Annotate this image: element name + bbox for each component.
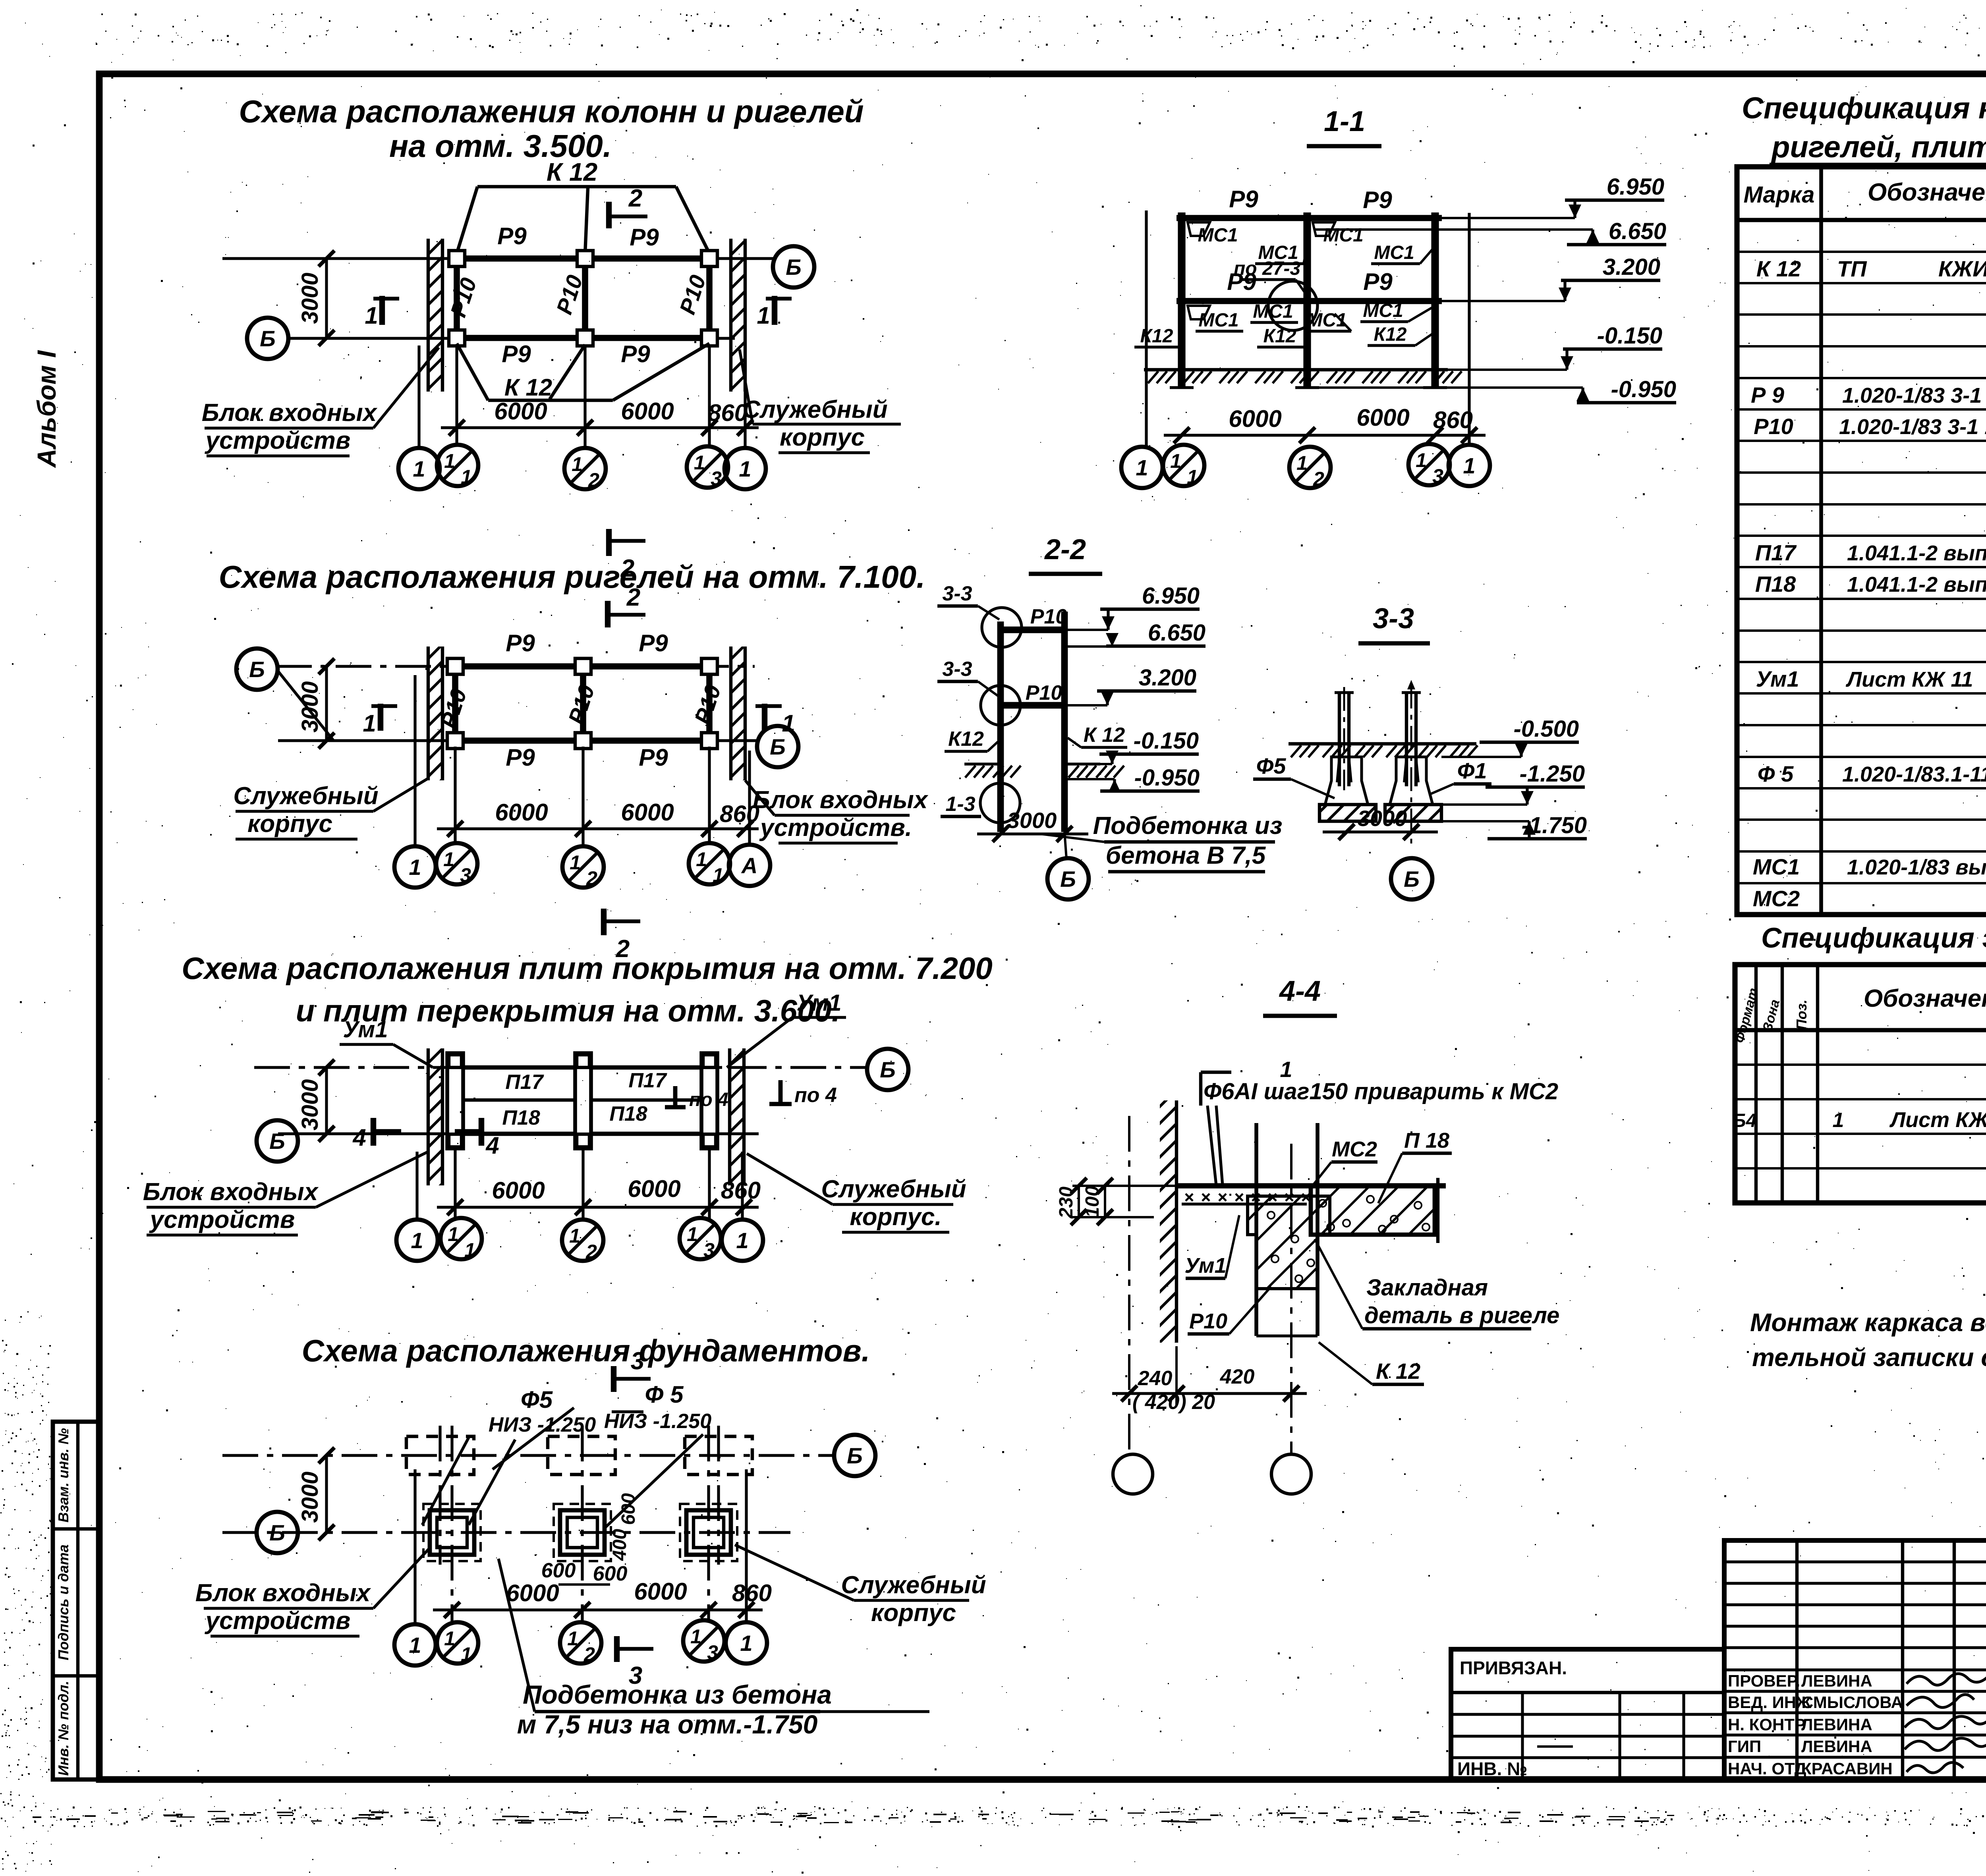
svg-text:2: 2 [583,1643,595,1666]
spec table2 row B4 list KZh11 [1733,1106,1986,1132]
svg-text:Р9: Р9 [639,744,668,771]
svg-text:1: 1 [696,848,707,870]
svg-text:Закладная: Закладная [1366,1275,1488,1301]
spec table1 row P9 [1751,382,1986,407]
section2 podbetonka note [1041,812,1282,872]
plan1 section mark 2 bottom [609,529,645,582]
svg-text:3: 3 [631,1347,644,1375]
svg-text:Подбетонка из: Подбетонка из [1093,812,1283,840]
section 3-3 title [1358,603,1430,643]
svg-text:Служебный: Служебный [233,782,378,810]
svg-text:3000: 3000 [297,272,323,324]
section2 elevation 6.650 [1068,620,1206,647]
plan2 axis circle 1/2 [562,846,604,890]
plan1 column squares [449,251,717,346]
svg-text:1.020-1/83.1-11.0.0: 1.020-1/83.1-11.0.0 [1842,762,1986,786]
plan3 wall right hatched [730,1048,744,1185]
svg-text:3-3: 3-3 [942,582,972,605]
svg-text:К 12: К 12 [1084,724,1125,747]
svg-text:Б: Б [249,657,265,682]
plan3 axis B top line [254,1066,869,1069]
svg-text:Б: Б [269,1129,285,1154]
section3 dim 3000 [1323,806,1438,840]
svg-text:1: 1 [570,851,581,874]
svg-text:Р10: Р10 [1754,414,1793,439]
svg-text:Служебный: Служебный [821,1175,966,1203]
section2 elevation -0.950 [1068,765,1200,793]
svg-text:Блок входных: Блок входных [753,786,929,814]
section3 pedestal F5 left [1325,757,1368,805]
svg-text:Р10: Р10 [563,682,599,727]
plan2 axis circle B left [236,648,278,690]
spec table1 row Um1 [1756,666,1986,691]
plan4 podbetonka note [498,1559,929,1739]
spec table1 row F5 [1758,761,1986,786]
plan3 leader sluzhebny korpus [747,1154,966,1232]
section3 anchor bolts left [1335,687,1354,790]
svg-text:1: 1 [1280,1057,1292,1082]
svg-text:Подпись и дата: Подпись и дата [55,1544,71,1660]
svg-text:Спецификация к схемам располож: Спецификация к схемам расположения колон… [1742,91,1986,125]
plan4 axis B bottom line [222,1531,790,1534]
section1 po27-3 note [1234,258,1307,296]
section3 axis circle B [1391,858,1432,899]
svg-text:Ум1: Ум1 [1756,666,1799,691]
svg-text:Р 9: Р 9 [1751,382,1784,407]
svg-text:1: 1 [461,466,472,488]
title block privyazan table [1451,1649,1724,1779]
plan3 axis verticals [417,1150,742,1221]
plan4 axis verticals dashdot [415,1426,746,1626]
svg-text:Р10: Р10 [674,272,711,317]
svg-text:Б: Б [260,326,276,351]
svg-text:3: 3 [707,1641,718,1664]
svg-text:6000: 6000 [494,398,547,425]
plan4 section mark 3 top [614,1347,651,1392]
plan4 top row foundations dashed [406,1436,752,1475]
section3 F1 label [1430,758,1491,794]
svg-text:Инв. № подл.: Инв. № подл. [55,1681,71,1776]
plan2 wall left hatched [428,647,442,780]
svg-text:2: 2 [628,185,642,212]
plan2 beams P10 vertical [455,666,709,741]
svg-text:6000: 6000 [1229,405,1281,432]
svg-text:Р9: Р9 [630,224,659,251]
svg-text:1: 1 [363,710,376,737]
plan1 beams P10 vertical [457,259,709,338]
svg-text:100: 100 [1082,1186,1103,1218]
svg-text:П18: П18 [1755,571,1796,596]
svg-text:1: 1 [409,855,421,880]
svg-text:1: 1 [567,1627,578,1650]
svg-text:Б: Б [786,255,802,280]
svg-text:1: 1 [1296,452,1308,474]
section2 elevation 6.950 [1068,583,1200,630]
svg-text:1: 1 [461,1643,472,1666]
svg-text:1: 1 [782,710,795,737]
svg-text:по 4: по 4 [794,1084,837,1107]
svg-text:600: 600 [541,1559,576,1582]
plan1 section mark 1 left [365,296,399,329]
svg-text:К12: К12 [1263,326,1296,347]
svg-text:-0.150: -0.150 [1134,728,1199,754]
plan1 dim 3000 left [222,251,334,346]
svg-text:1: 1 [1463,453,1475,478]
plan1 axis circle B left [247,318,288,359]
svg-text:корпус: корпус [780,424,865,451]
svg-text:600: 600 [618,1493,639,1525]
plan3 title [182,951,993,1028]
section2 beam P10 middle [1001,681,1064,705]
plan2 axis B top line [276,665,755,668]
svg-text:860: 860 [732,1580,772,1606]
svg-text:Ум1: Ум1 [343,1017,388,1042]
plan2 axis circle 1/3 [436,843,477,886]
svg-text:П17: П17 [628,1069,667,1092]
svg-text:Альбом I: Альбом I [32,350,61,468]
svg-text:корпус: корпус [871,1599,956,1627]
detail4 column K12 lines [1256,1123,1318,1336]
spec table1 grid [1737,167,1986,915]
svg-text:420: 420 [1220,1365,1255,1388]
svg-text:1.041.1-2 вып.1: 1.041.1-2 вып.1 [1847,541,1986,565]
svg-text:1.020-1/83 3-1: 1.020-1/83 3-1 [1842,384,1982,407]
svg-text:Схема располажения колонн и ри: Схема располажения колонн и ригелей [239,94,864,129]
plan3 axis circle 1/2 [562,1220,603,1263]
section1 axis circle 1 right [1449,445,1490,486]
svg-text:Лист КЖ 11: Лист КЖ 11 [1845,668,1973,691]
detail4 mesh marks [1182,1194,1310,1204]
svg-text:600: 600 [593,1562,628,1585]
plan1 wall left hatched [428,239,442,392]
spec table1 title [1742,91,1986,164]
svg-text:230: 230 [1056,1187,1077,1219]
svg-text:К12: К12 [1374,324,1407,345]
detail4 axis line left [1128,1116,1130,1453]
svg-text:2: 2 [588,469,599,491]
svg-text:деталь в ригеле: деталь в ригеле [1364,1303,1559,1328]
plan2 wall right hatched [731,647,745,780]
spec table1 row P17 [1755,540,1986,565]
plan2 axis circle A [729,845,770,886]
montage note [1750,1308,1986,1372]
svg-text:6.950: 6.950 [1142,583,1200,609]
section 2-2 title [1029,534,1102,574]
svg-text:Р9: Р9 [1229,186,1258,212]
svg-text:-0.150: -0.150 [1597,323,1662,349]
svg-text:Ф6АI шаг150 приварить к МС2: Ф6АI шаг150 приварить к МС2 [1204,1079,1558,1104]
plan4 section mark 3 bottom [617,1636,653,1689]
section1 ground line [1144,370,1462,383]
section3 pedestal F1 right [1390,757,1433,805]
svg-text:ригелей, плит, фундаментов.: ригелей, плит, фундаментов. [1771,130,1986,164]
svg-text:2: 2 [626,584,640,611]
svg-text:Р9: Р9 [1363,187,1392,213]
svg-text:Р9: Р9 [621,341,650,367]
detail4 axis line right [1290,1144,1292,1453]
svg-text:-1.250: -1.250 [1520,761,1585,787]
svg-text:1: 1 [1187,466,1198,488]
svg-text:ТП: ТП [1837,256,1867,281]
section3 elevation -0.500 [1441,716,1579,757]
plan3 leader blok vhodnyh [143,1152,428,1235]
plan4 leader sluzhebny korpus [735,1545,986,1627]
svg-text:2-2: 2-2 [1044,534,1086,566]
svg-text:Взам. инв. №: Взам. инв. № [55,1428,71,1523]
svg-text:Б: Б [847,1443,863,1468]
section2 dim 3000 [977,808,1088,842]
svg-text:НАЧ. ОТД: НАЧ. ОТД [1728,1759,1806,1778]
svg-text:1: 1 [443,848,454,870]
svg-text:Схема располажения фундаменто: Схема располажения фундаментов. [302,1333,870,1368]
svg-text:6000: 6000 [506,1580,559,1606]
svg-text:-0.950: -0.950 [1134,765,1200,791]
plan1 axis circle 1 right [724,448,766,489]
section1 elevation 3.200 [1442,254,1660,301]
svg-text:3000: 3000 [297,1471,323,1523]
svg-text:К12: К12 [948,728,984,751]
svg-text:ЛЕВИНА: ЛЕВИНА [1801,1737,1872,1756]
plan2 axis circle 1 [394,846,436,888]
svg-text:Служебный: Служебный [841,1571,986,1599]
section1 elevation 6.650 [1315,218,1666,245]
plan1 beam P9 top [457,255,709,262]
spec table1 row K12 [1756,256,1986,281]
detail4 Um1 label [1184,1215,1239,1278]
plan4 F5 label left [477,1386,553,1414]
svg-text:6.650: 6.650 [1148,620,1206,646]
svg-text:1.020-1/83 вып. 7-1: 1.020-1/83 вып. 7-1 [1847,855,1986,879]
svg-text:6000: 6000 [621,398,674,425]
section1 axis circle 1/2 [1289,447,1331,490]
section2 beam P10 top [1001,605,1067,630]
plan4 title [302,1333,870,1368]
svg-text:1: 1 [411,1228,423,1253]
plan2 beam P9 bottom [455,737,709,744]
section1 dimension line [1164,404,1486,443]
svg-text:1: 1 [740,1631,752,1656]
svg-text:Н. КОНТР: Н. КОНТР [1728,1715,1806,1734]
section1 axis circle 1/1 [1163,445,1204,488]
plan4 axis circle B left [257,1512,298,1553]
section1 P9 labels [1227,186,1393,295]
svg-text:корпус: корпус [247,810,332,838]
plan2 leader blok vhodnyh right [745,780,929,843]
svg-text:3000: 3000 [297,681,323,732]
svg-text:6000: 6000 [1356,404,1409,431]
svg-text:3-3: 3-3 [1373,603,1414,635]
svg-text:Б: Б [880,1057,896,1082]
plan3 axis B bottom line [278,1132,759,1135]
plan3 plate field outline [455,1067,709,1134]
plan3 P18 labels [502,1102,647,1129]
svg-text:Р9: Р9 [506,744,535,771]
section2 K12 labels [945,724,1127,751]
album label vertical [32,350,61,468]
svg-text:МС1: МС1 [1363,300,1403,321]
title block sign rows text [1728,1671,1903,1778]
svg-text:860: 860 [708,400,748,426]
svg-text:ПРИВЯЗАН.: ПРИВЯЗАН. [1460,1658,1567,1678]
svg-text:1: 1 [757,302,770,329]
svg-text:СМЫСЛОВА: СМЫСЛОВА [1801,1693,1903,1712]
plan1 axis circle 1/2 [564,448,606,491]
svg-text:К 12: К 12 [504,374,552,401]
plan1 K12 top label [547,158,597,186]
svg-text:Б4: Б4 [1733,1110,1757,1131]
plan3 axis circle B left [257,1120,298,1162]
detail4 slab P18 hatched [1311,1178,1438,1243]
detail4 K12 label [1319,1342,1424,1384]
section2 detail circle 1-3 bottom [941,783,1020,823]
svg-text:4: 4 [485,1132,499,1159]
svg-text:Ф 5: Ф 5 [645,1381,684,1408]
svg-text:Блок входных: Блок входных [202,399,378,427]
svg-text:Поз.: Поз. [1793,1000,1810,1030]
svg-text:Лист КЖ 11: Лист КЖ 11 [1889,1108,1986,1132]
svg-text:1: 1 [1170,450,1181,472]
section1 MC1 flags middle row [1188,300,1435,331]
svg-text:1: 1 [690,1625,701,1648]
section1 axis line 1 right [1468,213,1470,446]
detail4 zakladnaya note [1315,1239,1559,1329]
svg-text:6000: 6000 [495,799,548,826]
svg-text:Блок входных: Блок входных [143,1178,319,1206]
svg-text:Ф5: Ф5 [521,1386,553,1413]
svg-text:ЛЕВИНА: ЛЕВИНА [1801,1671,1872,1690]
svg-text:3: 3 [711,467,722,490]
svg-text:Б: Б [770,734,786,759]
plan4 bottom row foundations [423,1504,737,1561]
svg-text:НИЗ -1.250: НИЗ -1.250 [604,1410,711,1433]
spec table2 title [1761,923,1986,954]
section1 beam P9 middle [1177,298,1442,304]
svg-text:6.950: 6.950 [1607,174,1664,200]
plan2 axis circle B right [757,726,798,767]
svg-text:1-1: 1-1 [1324,106,1365,137]
svg-text:1: 1 [569,1225,580,1247]
svg-text:МС1: МС1 [1198,225,1238,246]
svg-text:Р9: Р9 [1363,268,1393,295]
plan1 axis B top line [222,257,774,260]
svg-text:1.020-1/83 3-1 14-01: 1.020-1/83 3-1 14-01 [1839,415,1986,439]
svg-text:по 27-3: по 27-3 [1234,258,1300,279]
svg-text:устройств: устройств [205,427,351,454]
svg-text:860: 860 [1433,407,1473,433]
svg-text:устройств: устройств [205,1607,351,1635]
svg-text:1: 1 [713,864,724,886]
svg-text:ВЕД. ИНЖ: ВЕД. ИНЖ [1728,1693,1812,1712]
section2 detail circle 3-3 top [937,582,1022,647]
plan3 dimension line [437,1175,761,1215]
svg-text:К 12: К 12 [547,158,597,186]
svg-text:Б: Б [1404,867,1420,892]
plan1 axis circle 1 left [398,448,440,489]
plan4 niz labels [489,1410,711,1436]
section1 column feet [1170,386,1447,389]
svg-text:МС1: МС1 [1198,310,1238,331]
section3 elevation -1.750 [1441,813,1587,839]
plan2 dim 3000 [278,658,334,749]
svg-text:П17: П17 [1755,540,1797,565]
plan4 dim 3000 [297,1448,334,1540]
detail4 MC2 label [1313,1137,1377,1185]
svg-text:Ф5: Ф5 [1256,753,1287,778]
svg-text:МС1: МС1 [1253,301,1293,322]
section3 F5 label [1253,753,1335,798]
svg-text:Марка: Марка [1743,182,1814,208]
svg-text:КЖИ.07.0.01: КЖИ.07.0.01 [1938,256,1986,281]
svg-text:1: 1 [572,453,583,475]
section2 detail circle 3-3 mid [937,658,1020,725]
svg-text:2: 2 [1313,468,1324,490]
spec table1 row MC1 [1753,842,1986,879]
plan4 leader blok vhodnyh [195,1549,429,1636]
svg-text:4: 4 [352,1124,366,1151]
detail4 floor line [1177,1183,1446,1188]
plan4 axis B top line [222,1454,834,1457]
svg-text:Обозначение: Обозначение [1864,985,1986,1012]
section3 elevation -1.250 [1441,761,1585,805]
section1 columns K12 [1182,212,1435,388]
plan4 axis circle 1/2 [560,1622,601,1666]
svg-text:тельной записки серии 1.020: тельной записки серии 1.020-1/83 вып. 0-… [1752,1343,1986,1372]
section1 node detail circle [1268,281,1318,330]
plan4 axis circle 1 left [394,1624,436,1666]
section3 base slab left hatched [1319,805,1376,821]
detail4 note F6AI [1201,1057,1558,1185]
section3 base slab right hatched [1385,805,1441,821]
section3 anchor bolts right [1402,680,1421,846]
svg-text:860: 860 [721,1177,761,1204]
svg-text:Р9: Р9 [497,223,527,249]
svg-text:Р10: Р10 [1189,1309,1227,1333]
plan2 dimension line [437,799,759,837]
svg-text:К 12: К 12 [1376,1359,1420,1384]
plan2 section mark 1 left [363,704,397,737]
section3 ground line [1289,744,1478,757]
section1 K12 labels [1134,324,1435,347]
detail4 axis circle right [1271,1454,1311,1494]
svg-text:ЛЕВИНА: ЛЕВИНА [1801,1715,1872,1734]
svg-text:Блок входных: Блок входных [195,1579,371,1607]
plan4 axis circle 1 right [726,1622,767,1664]
svg-text:Р10: Р10 [445,275,481,320]
svg-text:Ф1: Ф1 [1457,758,1487,783]
spec table2 header [1732,982,1986,1045]
svg-text:3000: 3000 [297,1079,323,1130]
svg-text:устройств.: устройств. [759,814,912,841]
plan2 leader sluzhebny korpus left [233,778,428,839]
svg-text:1: 1 [1136,455,1148,480]
plan4 dimension line [433,1578,772,1618]
svg-text:К12: К12 [1140,326,1173,347]
svg-text:3.200: 3.200 [1603,254,1660,280]
plan2 axis B bottom line [278,739,757,742]
svg-text:240: 240 [1138,1367,1173,1390]
section2 columns K12 [1001,612,1064,832]
svg-text:К 12: К 12 [1756,256,1801,281]
svg-text:Монтаж каркаса вести согласно: Монтаж каркаса вести согласно указаниям … [1750,1308,1986,1337]
svg-text:корпус.: корпус. [850,1203,941,1231]
detail4 beam cross hatched [1248,1196,1330,1289]
plan3 axis circle B right [867,1049,908,1090]
plan3 axis circle 1 left [396,1220,438,1261]
plan3 axis circle 1/3 [680,1218,721,1261]
svg-text:3: 3 [1432,465,1443,487]
plan1 K12 top trapezoid [457,187,709,254]
svg-text:МС2: МС2 [1753,886,1800,911]
